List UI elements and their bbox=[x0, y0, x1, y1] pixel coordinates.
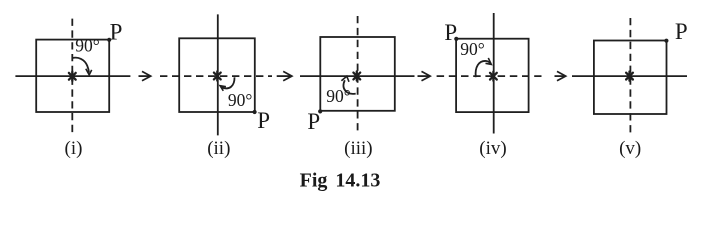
square (iv) bbox=[456, 39, 528, 112]
svg-text:90°: 90° bbox=[228, 90, 253, 110]
svg-text:P: P bbox=[444, 20, 457, 45]
svg-text:(v): (v) bbox=[619, 138, 641, 159]
svg-text:90°: 90° bbox=[75, 35, 100, 55]
svg-text:90°: 90° bbox=[326, 86, 351, 106]
arc arrowhead (iv) bbox=[486, 58, 492, 65]
horizontal axis (iv) dashed bbox=[437, 75, 542, 77]
corner point dot (iv) bbox=[454, 37, 458, 41]
vertical axis (ii) solid bbox=[217, 14, 219, 135]
svg-text:(ii): (ii) bbox=[207, 138, 230, 159]
svg-text:P: P bbox=[307, 109, 320, 134]
arc arrowhead (ii) bbox=[220, 86, 226, 91]
centre mark X (iii) bbox=[353, 71, 360, 80]
sequence arrow 4 bbox=[555, 71, 566, 80]
corner point dot (v) bbox=[664, 39, 668, 43]
svg-text:90°: 90° bbox=[460, 39, 485, 59]
svg-text:(i): (i) bbox=[65, 138, 83, 159]
centre mark X (i) bbox=[69, 72, 76, 81]
rotation arc (i) bbox=[72, 58, 89, 73]
square (iii) bbox=[320, 37, 395, 111]
svg-text:(iii): (iii) bbox=[344, 138, 373, 159]
sequence arrow 1 bbox=[139, 71, 151, 80]
svg-text:P: P bbox=[675, 19, 688, 44]
vertical axis (iii) dashed bbox=[357, 16, 359, 135]
corner point dot (ii) bbox=[253, 110, 257, 114]
square (v) bbox=[594, 41, 667, 115]
vertical axis (i) dashed bbox=[71, 19, 73, 133]
svg-text:Fig14.13: Fig14.13 bbox=[300, 170, 381, 192]
svg-text:P: P bbox=[110, 19, 123, 44]
arc arrowhead (i) bbox=[86, 69, 92, 75]
vertical axis (iv) solid bbox=[493, 13, 495, 134]
square (i) bbox=[36, 40, 109, 112]
sequence arrow 2 bbox=[277, 71, 292, 80]
horizontal axis (i) solid bbox=[15, 75, 130, 77]
horizontal axis (v) solid bbox=[572, 75, 687, 77]
sequence arrow 3 bbox=[418, 71, 431, 80]
vertical axis (v) dashed bbox=[629, 18, 631, 136]
square (ii) bbox=[179, 38, 255, 112]
svg-text:(iv): (iv) bbox=[479, 138, 506, 159]
svg-text:P: P bbox=[257, 108, 270, 133]
arc arrowhead (iii) bbox=[341, 76, 349, 82]
horizontal axis (iii) solid bbox=[300, 75, 415, 77]
corner point dot (i) bbox=[107, 38, 111, 42]
rotation arc (iv) bbox=[476, 61, 491, 77]
centre mark X (ii) bbox=[214, 71, 221, 80]
centre mark X (v) bbox=[626, 72, 633, 81]
centre mark X (iv) bbox=[490, 72, 497, 81]
rotation arc (iii) bbox=[343, 80, 355, 94]
rotation arc (ii) bbox=[221, 77, 235, 88]
horizontal axis (ii) dashed bbox=[160, 75, 272, 77]
corner point dot (iii) bbox=[318, 109, 322, 113]
